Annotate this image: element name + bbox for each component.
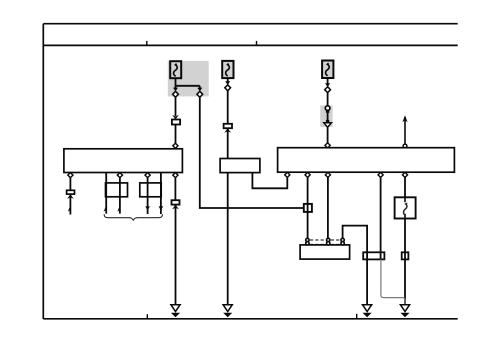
connector at K pin 1: [68, 173, 73, 178]
wire ECU pin D down through in-line connector: [380, 177, 382, 259]
fuse F3: [322, 61, 333, 79]
in-line connector (wide) on two wires: [363, 252, 384, 259]
junction connector J1 with entering arrow: [172, 115, 180, 125]
wire K pin 5: [160, 173, 162, 214]
connector pair node B (right branch): [197, 86, 203, 98]
ECU main box: [278, 148, 455, 173]
wire fuse F1 to junction: [175, 78, 177, 88]
connector at K pin 6: [173, 173, 178, 178]
connector at ECU top pin 2: [403, 144, 407, 148]
border frame bottom line: [43, 318, 457, 320]
shield S1 around pins 2-3: [106, 183, 128, 197]
wire right branch down long run: [200, 97, 304, 208]
wire J2 to component M top: [227, 128, 229, 158]
ground G2: [223, 305, 232, 318]
wire K pin 4: [147, 178, 149, 214]
wire ECU pin E to diode box: [404, 177, 406, 197]
connector at ECU top pin 1: [325, 143, 330, 148]
grid tick bottom 2: [356, 314, 358, 319]
off-page arrow down pin4: [145, 206, 150, 210]
diode box D1: [395, 197, 416, 218]
wire J4 down to ground G1: [175, 205, 177, 305]
wire fuse F2 down: [227, 78, 229, 82]
wire K pin6 to junction connector J4: [174, 178, 176, 201]
fuse F1: [170, 61, 181, 78]
wire J3 stub to off-page: [69, 194, 71, 214]
connector pair at sensor pin 2: [327, 238, 330, 245]
wire K pin1 to junction connector J3: [69, 178, 71, 191]
ground G3: [363, 305, 372, 318]
splice square on pin B wire: [304, 204, 312, 212]
brace under pins 2-5: [104, 214, 162, 220]
connector pair node A (below F1): [173, 88, 179, 98]
wire M right pin to ECU pin A: [252, 173, 287, 189]
connector at ECU pin C: [325, 172, 330, 177]
connector at relay block K top pin: [173, 143, 178, 148]
connector pair at sensor pin 3: [341, 238, 344, 245]
wire diode box down to ground G4: [404, 219, 406, 305]
wire fuse F3 down: [327, 78, 329, 84]
shaded harness area behind fuse F1: [168, 61, 209, 97]
connector at K pin 4: [145, 173, 150, 178]
in-line connector on pin E wire: [402, 252, 409, 259]
border frame top line 2: [43, 44, 457, 46]
grid tick top 1: [146, 41, 148, 46]
junction block JB female connector (top): [325, 106, 330, 113]
wire ECU pin B down: [307, 177, 309, 239]
grid tick bottom 1: [146, 314, 148, 319]
junction connector J2 with leaving arrow: [224, 124, 232, 133]
wire J1 to relay block K top pin: [175, 125, 177, 144]
gray jumper wire pin D to ground run: [381, 259, 405, 304]
ground G1: [171, 305, 180, 318]
off-page half arrow up pin3: [117, 205, 120, 212]
junction block JB male connector (bottom): [324, 120, 332, 127]
wire JB to ECU top pin: [327, 127, 329, 143]
off-page half arrow up pin2: [104, 205, 107, 212]
wire K pin 2: [105, 173, 107, 214]
connector at ECU pin D: [378, 172, 383, 177]
junction connector J3 with leaving arrow: [67, 190, 75, 199]
off-page arrow up (to other system): [402, 115, 407, 144]
wire M left pin down to ground G2: [227, 173, 229, 305]
shield S2 around pins 4-5: [140, 183, 161, 197]
wire junction branch to right: [176, 85, 200, 87]
connector pair node C (below F2): [225, 81, 231, 91]
sensor box: [300, 245, 350, 259]
grid tick top 2: [256, 41, 258, 46]
border frame left: [42, 24, 44, 319]
component M: [220, 159, 260, 173]
wire K pin 3: [119, 178, 121, 214]
connector pair node D (below F3): [325, 83, 331, 93]
connector at K pin 3: [117, 173, 122, 178]
connector at ECU pin A: [285, 172, 290, 177]
connector housing dashed line row 1: [310, 239, 340, 241]
junction connector J4 with leaving arrow: [172, 200, 180, 209]
fuse F2: [222, 61, 233, 78]
off-page arrow down pin5: [159, 206, 164, 210]
wire inside junction block JB: [327, 113, 329, 120]
wire node D to junction block JB: [327, 93, 329, 107]
wire F1 branch down to junction connector J1: [175, 97, 177, 116]
connector at ECU pin E: [402, 172, 407, 177]
wire sensor pin 3 elbow: [343, 226, 368, 305]
shaded junction block area on fuse F3 branch: [320, 105, 332, 127]
ground G4: [400, 305, 409, 318]
wire ECU pin C down: [327, 177, 329, 239]
border frame top line 1: [43, 23, 457, 25]
wire node C to junction connector J2: [227, 91, 229, 124]
connector at ECU pin B: [305, 172, 310, 177]
connector housing dashed line row 2: [310, 243, 340, 245]
off-page half arrow up pin1: [68, 205, 71, 212]
relay block K: [64, 149, 182, 173]
connector pair at sensor pin 1: [306, 238, 309, 245]
